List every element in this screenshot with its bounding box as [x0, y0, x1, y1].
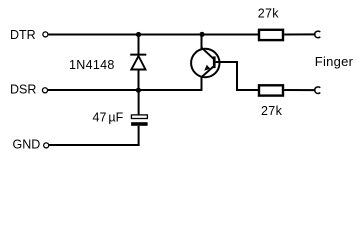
emitter inner diagonal — [201, 66, 214, 77]
wire DTR rail — [48, 34, 258, 36]
transistor Q1 — [191, 35, 219, 78]
svg-text:1N4148: 1N4148 — [69, 58, 115, 72]
collector inner diagonal — [202, 48, 214, 59]
svg-text:47µF: 47µF — [93, 110, 124, 124]
terminal GND — [44, 143, 49, 148]
terminal DSR — [42, 88, 47, 93]
svg-text:Finger: Finger — [315, 54, 354, 69]
base bar — [213, 56, 216, 68]
wire cap bottom lead — [138, 126, 140, 145]
junction dot DTR/diode — [136, 32, 141, 37]
svg-text:DSR: DSR — [10, 83, 36, 97]
wire R2 to contact — [284, 89, 315, 91]
junction dot DTR/collector — [199, 32, 204, 37]
junction dot DSR/diode/cap — [136, 88, 141, 93]
cap bottom plate (solid) — [131, 122, 148, 126]
diode cathode bar — [130, 54, 146, 56]
svg-text:DTR: DTR — [10, 28, 36, 42]
wire diode top lead — [138, 35, 140, 55]
svg-text:GND: GND — [13, 137, 41, 151]
wire cap top lead — [138, 90, 140, 115]
contact point top (open) — [315, 31, 321, 38]
capacitor C1 47uF — [131, 90, 148, 145]
transistor body circle — [191, 49, 219, 77]
cap top plate (hollow) — [131, 115, 147, 119]
emitter arrowhead (NPN, pointing out) — [204, 65, 210, 71]
terminal DTR — [43, 32, 48, 37]
wire diode bottom lead — [138, 70, 140, 91]
wire DSR rail — [48, 78, 202, 91]
svg-text:27k: 27k — [258, 7, 280, 21]
svg-text:27k: 27k — [261, 104, 283, 118]
wire base lead — [216, 62, 258, 90]
resistor R2 27k (bottom) — [259, 85, 283, 95]
contact point bottom (open) — [315, 87, 321, 94]
diode D1 1N4148 — [130, 35, 146, 91]
diode triangle — [131, 56, 145, 70]
wire GND rail — [49, 144, 140, 146]
resistor R1 27k (top) — [259, 30, 283, 40]
wire R1 to contact — [284, 33, 315, 35]
wire collector lead — [201, 35, 203, 49]
